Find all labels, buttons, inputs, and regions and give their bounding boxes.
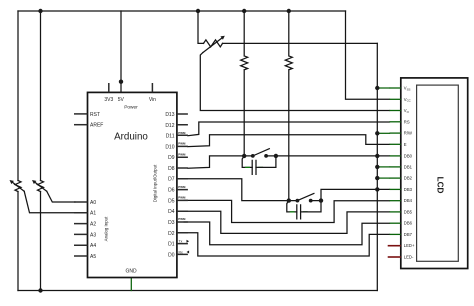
wire RV2 bottom to ground rail [40, 192, 42, 291]
svg-text:D9: D9 [168, 155, 175, 161]
capacitor C1 right lead [256, 156, 276, 168]
svg-text:DB4: DB4 [404, 198, 413, 203]
svg-text:D11: D11 [166, 134, 175, 140]
wire RV3 wiper to LCD Vo [200, 53, 389, 111]
node ground-DB2 [375, 176, 379, 180]
svg-text:A5: A5 [90, 254, 96, 260]
svg-text:AREF: AREF [90, 123, 103, 129]
svg-text:Rx: Rx [179, 250, 183, 254]
svg-text:R/W: R/W [404, 131, 412, 136]
svg-text:D7: D7 [168, 177, 175, 183]
svg-text:Power: Power [124, 105, 138, 111]
svg-text:LCD: LCD [435, 177, 444, 194]
wire D3 to LCD DB6 staircase [184, 222, 389, 245]
wire D7 to switch S2 [184, 179, 297, 201]
node 5V-RV2 [38, 9, 42, 13]
wire ground bus to LCD DB2 [377, 177, 389, 179]
svg-text:A3: A3 [90, 232, 96, 238]
svg-text:PWM: PWM [178, 196, 186, 200]
wire RV1 wiper to A1 [24, 191, 75, 213]
svg-text:DB2: DB2 [404, 176, 413, 181]
ground bus vertical [376, 43, 378, 290]
labels A0-A5 [90, 200, 96, 260]
wire ground bus to LCD R/W [377, 132, 389, 134]
capacitor C1 plates [252, 160, 256, 174]
LCD pin labels [404, 86, 415, 260]
svg-text:D13: D13 [165, 112, 174, 118]
wire D5 to LCD DB4 staircase [184, 200, 389, 222]
potentiometer RV1 [15, 181, 21, 192]
svg-text:DB3: DB3 [404, 187, 413, 192]
switch S1 terminals [242, 154, 246, 158]
svg-text:D0: D0 [168, 252, 175, 258]
capacitor C2 terminal ticks [290, 211, 307, 213]
svg-text:Analog Input: Analog Input [104, 216, 109, 241]
wire 5V rail to LCD Vcc [346, 11, 390, 99]
pin stub AREF [74, 124, 88, 126]
svg-text:Vin: Vin [149, 97, 156, 103]
svg-text:PWM: PWM [178, 142, 186, 146]
wire 5V top rail [18, 10, 346, 12]
svg-text:D4: D4 [168, 209, 175, 215]
ground bottom rail [18, 290, 377, 292]
svg-text:D6: D6 [168, 188, 175, 194]
wire D10 to LCD E [188, 135, 390, 147]
svg-text:D8: D8 [168, 166, 175, 172]
wire switch S1 right to ground bus and LCD DB0 [266, 155, 389, 157]
wire Arduino GND pin to ground rail [130, 278, 132, 291]
pwm marks [178, 131, 186, 221]
svg-text:PWM: PWM [178, 152, 186, 156]
node 5V-R2 [287, 9, 291, 13]
wire 5V to Arduino 5V pin [120, 11, 122, 92]
LCD pin stubs green [390, 88, 401, 234]
svg-text:A4: A4 [90, 243, 96, 249]
svg-text:PWM: PWM [178, 217, 186, 221]
wire left 5V drop to pot RV1 [17, 11, 19, 181]
labels D13-D0 [165, 112, 174, 258]
node 5V pin bend [119, 80, 123, 84]
potentiometer RV3 contrast [204, 40, 223, 47]
Arduino U1 [74, 83, 189, 278]
pin stubs D13-D0 [177, 114, 188, 254]
wire switch S2 right node riser to LCD DB3 row [311, 189, 390, 200]
pin stub RST [74, 113, 88, 115]
svg-text:GND: GND [125, 269, 137, 275]
resistor R1 pullup [241, 11, 248, 156]
svg-text:3V3: 3V3 [104, 97, 113, 103]
svg-text:A1: A1 [90, 210, 96, 216]
node ground-Vss [375, 86, 379, 90]
node ground-DB1 [375, 165, 379, 169]
pin stub Vin [151, 83, 153, 92]
svg-text:A2: A2 [90, 222, 96, 228]
svg-text:Tx: Tx [179, 240, 183, 244]
node ground rail RV2 [38, 288, 42, 292]
svg-text:D2: D2 [168, 231, 175, 237]
svg-text:D3: D3 [168, 220, 175, 226]
svg-text:DB7: DB7 [404, 232, 413, 237]
wire 5V drop to pot RV3 [198, 11, 204, 43]
capacitor C1 left lead [242, 156, 252, 168]
LCD LED pin stubs red [388, 246, 401, 257]
node ground-R/W [375, 131, 379, 135]
wire D2 to LCD DB7 staircase [184, 233, 389, 256]
svg-text:PWM: PWM [178, 185, 186, 189]
wire RV1 bottom to ground rail [17, 192, 19, 291]
capacitor C1 terminal ticks [246, 166, 263, 168]
svg-text:RST: RST [90, 112, 100, 118]
wire D8 to switch S1 left node [188, 156, 253, 168]
capacitor C2 left lead [287, 201, 297, 212]
switch S2 lever [297, 193, 314, 200]
wire ground bus to LCD Vss [377, 87, 389, 89]
potentiometer RV2 [38, 181, 44, 192]
svg-text:D1: D1 [168, 242, 175, 248]
resistor R2 pullup [285, 11, 292, 201]
capacitor C2 plates [297, 205, 301, 219]
node 5V-RV3 [196, 9, 200, 13]
svg-text:DB0: DB0 [404, 153, 413, 158]
svg-text:Digital Input/Output: Digital Input/Output [153, 164, 158, 202]
svg-text:DB1: DB1 [404, 164, 413, 169]
switch S2 terminals [287, 198, 291, 202]
svg-text:RS: RS [404, 119, 410, 124]
svg-text:Arduino: Arduino [114, 132, 148, 143]
wire RV2 wiper to A0 [47, 191, 75, 202]
wire RV3 right terminal to ground bus [223, 42, 378, 44]
svg-text:DB6: DB6 [404, 221, 413, 226]
node ground-DB3 [375, 187, 379, 191]
svg-text:A0: A0 [90, 200, 96, 206]
switch S1 lever [253, 149, 269, 156]
wire ground bus to LCD DB1 [377, 166, 389, 168]
svg-text:LED+: LED+ [404, 243, 415, 248]
pin stub 3V3 [108, 83, 110, 92]
svg-text:D5: D5 [168, 198, 175, 204]
svg-text:5V: 5V [118, 97, 125, 103]
pin stubs A0-A5 [74, 202, 88, 256]
wire 5V drop to pot RV2 [40, 11, 42, 181]
Tx Rx marks [179, 240, 183, 255]
svg-text:DB5: DB5 [404, 209, 413, 214]
node ground-DB0 [375, 154, 379, 158]
capacitor C2 right lead [301, 201, 321, 212]
svg-text:D12: D12 [165, 123, 174, 129]
wire D11 to LCD RS [188, 122, 390, 136]
svg-text:PWM: PWM [178, 131, 186, 135]
svg-text:E: E [404, 142, 407, 147]
node 5V-R1 [242, 9, 246, 13]
svg-text:LED-: LED- [404, 255, 414, 260]
LCD U2 [388, 78, 468, 269]
wire D4 to LCD DB5 staircase [184, 211, 389, 233]
svg-text:D10: D10 [165, 144, 174, 150]
